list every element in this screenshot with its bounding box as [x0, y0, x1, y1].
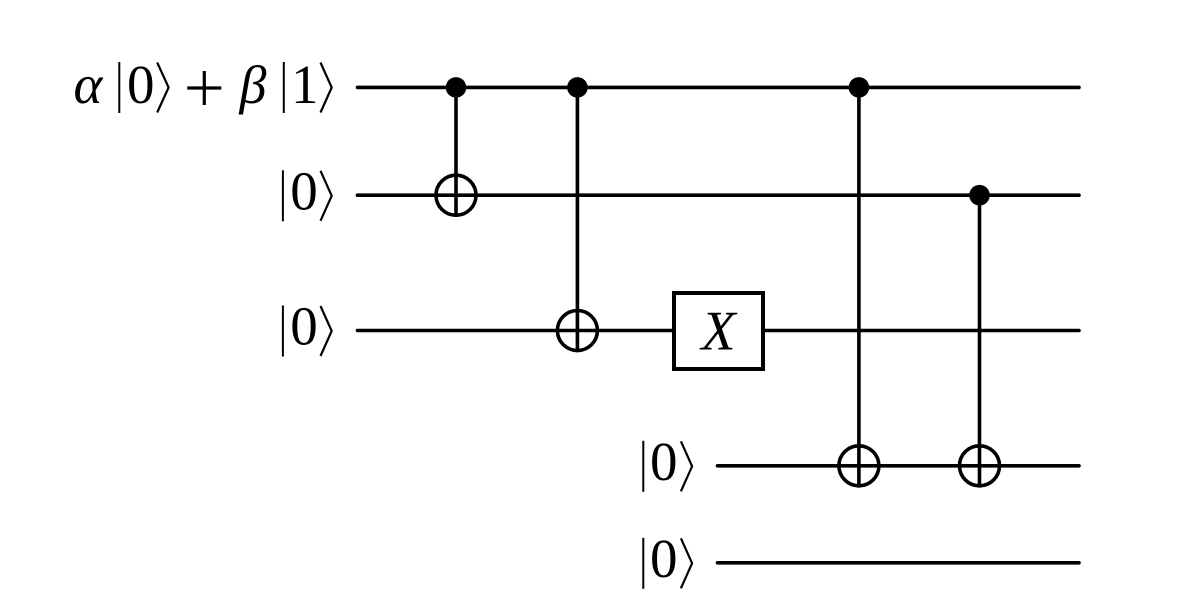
- label q0: alpha|0> + beta|1>: [73, 54, 331, 115]
- gate X box on q2: [674, 293, 763, 369]
- control dot CNOT2 on q0: [567, 77, 588, 98]
- label q4: |0>: [643, 528, 692, 589]
- svg-text:0: 0: [127, 54, 155, 115]
- CNOT target (oplus) on q1: [436, 175, 476, 215]
- CNOT target (oplus) on q3 second: [960, 446, 1000, 486]
- svg-text:X: X: [699, 301, 738, 363]
- svg-text:1: 1: [291, 54, 319, 115]
- wire q0 (top qubit line): [358, 86, 1080, 90]
- control dot CNOT3 on q0: [849, 77, 870, 98]
- svg-text:0: 0: [650, 431, 678, 492]
- svg-text:0: 0: [290, 160, 318, 221]
- wire q3: [718, 464, 1080, 468]
- svg-text:β: β: [239, 55, 267, 115]
- control dot CNOT4 on q1: [969, 185, 990, 206]
- wire q2: [358, 329, 1080, 333]
- wire: CNOT4 vertical q1->q3: [978, 195, 982, 487]
- label q1: |0>: [283, 160, 332, 221]
- label q2: |0>: [283, 296, 332, 357]
- control dot CNOT1 on q0: [446, 77, 467, 98]
- CNOT target (oplus) on q3 first: [839, 446, 879, 486]
- wire q1: [358, 193, 1080, 197]
- svg-text:α: α: [73, 54, 103, 115]
- label q3: |0>: [643, 431, 692, 492]
- svg-text:0: 0: [650, 528, 678, 589]
- wire q4 (bottom qubit line): [718, 561, 1080, 565]
- wire: CNOT1 vertical q0->q1: [454, 87, 458, 217]
- wire: CNOT2 vertical q0->q2: [576, 87, 580, 352]
- svg-text:0: 0: [290, 296, 318, 357]
- wire: CNOT3 vertical q0->q3: [857, 87, 861, 487]
- CNOT target (oplus) on q2: [557, 311, 597, 351]
